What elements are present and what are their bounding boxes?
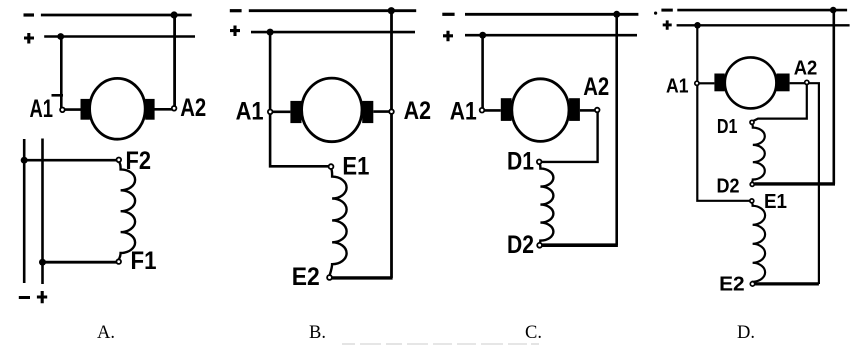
wire minus to A2 bbox=[173, 15, 176, 107]
svg-text:C.: C. bbox=[525, 323, 542, 343]
brush left (motor B) bbox=[290, 101, 301, 123]
wire A1 to brush (D) bbox=[699, 82, 714, 84]
wire to F1 bbox=[43, 261, 117, 264]
terminal E2 bbox=[327, 275, 332, 280]
terminal A1 bbox=[60, 108, 65, 113]
brush right (motor A) bbox=[145, 99, 154, 120]
svg-text:E2: E2 bbox=[719, 273, 745, 296]
shunt field coil E1-E2 bbox=[330, 169, 347, 275]
svg-text:A2: A2 bbox=[404, 97, 431, 125]
svg-text:D1: D1 bbox=[507, 148, 534, 176]
wire plus to A1 bbox=[60, 37, 63, 108]
junction negative bus / D2 drop D bbox=[830, 7, 837, 14]
wire negative bus B bbox=[249, 9, 416, 12]
supply plus symbol D bbox=[663, 20, 672, 29]
terminal D1 (C) bbox=[537, 160, 542, 165]
wire tick near A1 bbox=[52, 94, 64, 97]
brush right (motor C) bbox=[569, 98, 580, 121]
terminal D1 (D) bbox=[750, 120, 754, 124]
wire brush to A2 bbox=[154, 108, 172, 111]
wire D2 to minus vertical (thick) bbox=[754, 182, 835, 185]
wire negative bus D bbox=[677, 9, 847, 12]
supply minus symbol D bbox=[661, 9, 672, 12]
wire field supply right vertical bbox=[41, 139, 44, 285]
wire minus down to D2 (D) bbox=[832, 10, 835, 184]
wire A1 to brush bbox=[63, 108, 81, 111]
field supply plus symbol bbox=[37, 291, 47, 303]
svg-text:A1: A1 bbox=[666, 75, 689, 98]
armature M (motor A) bbox=[90, 78, 146, 139]
wire D2 to minus vertical (thick) bbox=[542, 243, 618, 247]
wire positive bus B bbox=[251, 31, 415, 34]
wire A1 to brush (C) bbox=[484, 109, 501, 112]
field supply minus symbol bbox=[19, 296, 30, 299]
wire brush to A2 (B) bbox=[373, 110, 389, 113]
terminal A2 (B) bbox=[389, 109, 394, 114]
svg-text:E1: E1 bbox=[342, 153, 369, 181]
junction negative bus / A2 drop B bbox=[388, 7, 395, 14]
svg-text:A1: A1 bbox=[236, 98, 264, 126]
wire positive bus C bbox=[465, 34, 637, 37]
terminal A2 bbox=[172, 106, 177, 111]
terminal A1 (D) bbox=[695, 81, 699, 85]
supply plus symbol A bbox=[24, 33, 34, 44]
supply plus symbol C bbox=[443, 31, 453, 42]
stray dot before minus (D) bbox=[654, 12, 657, 15]
armature M (motor C) bbox=[512, 79, 569, 142]
terminal E2 (D) bbox=[750, 282, 754, 286]
supply minus symbol B bbox=[230, 9, 242, 12]
terminal F1 bbox=[116, 259, 121, 264]
brush right (motor D) bbox=[776, 74, 789, 92]
wire negative bus C bbox=[465, 13, 638, 16]
junction positive bus / A1 drop bbox=[57, 33, 64, 40]
svg-text:D2: D2 bbox=[507, 231, 534, 259]
armature M (motor D) bbox=[725, 57, 777, 108]
wire E2 to minus vertical bbox=[332, 276, 393, 279]
field coil F2-F1 bbox=[119, 162, 135, 259]
supply plus symbol B bbox=[230, 26, 240, 37]
svg-text:A.: A. bbox=[97, 323, 115, 343]
junction positive bus / A1 drop C bbox=[479, 32, 486, 39]
junction field plus / F1 wire bbox=[39, 259, 46, 266]
svg-text:F1: F1 bbox=[131, 247, 157, 275]
wire brush to A2 (C) bbox=[580, 109, 595, 112]
brush right (motor B) bbox=[362, 101, 373, 123]
cropped caption remnant at bottom bbox=[342, 343, 539, 345]
series field coil D1-D2 bbox=[540, 164, 554, 243]
terminal F2 bbox=[117, 158, 122, 163]
svg-text:A1: A1 bbox=[450, 98, 477, 126]
brush left (motor C) bbox=[501, 98, 512, 121]
wire plus to A1 (C) bbox=[481, 35, 484, 108]
svg-text:D.: D. bbox=[737, 323, 755, 343]
shunt field coil E1-E2 bbox=[752, 203, 765, 282]
wire positive bus A bbox=[44, 35, 195, 38]
series field coil D1-D2 bbox=[752, 125, 765, 183]
wire minus down to D2 (C) bbox=[615, 14, 618, 245]
junction positive bus / A1 drop D bbox=[694, 22, 701, 29]
wire plus down through A1 to E1 bbox=[697, 25, 749, 201]
terminal A2 (C) bbox=[595, 108, 600, 113]
svg-text:D2: D2 bbox=[717, 175, 740, 198]
junction negative bus / A2 drop bbox=[171, 11, 178, 18]
svg-text:B.: B. bbox=[309, 323, 326, 343]
wire positive bus D bbox=[677, 24, 850, 26]
svg-text:D1: D1 bbox=[717, 115, 738, 138]
wire field supply left vertical bbox=[23, 139, 26, 283]
wire A1 to brush (B) bbox=[273, 111, 291, 114]
terminal D2 (D) bbox=[750, 182, 754, 186]
terminal A1 (B) bbox=[268, 110, 273, 115]
brush left (motor A) bbox=[81, 99, 90, 120]
supply minus symbol A bbox=[24, 13, 35, 16]
wire A2 down to D1 bbox=[542, 112, 598, 162]
svg-text:E2: E2 bbox=[292, 263, 320, 291]
wire negative bus A bbox=[41, 14, 192, 17]
armature M (motor B) bbox=[302, 78, 362, 142]
svg-text:A2: A2 bbox=[794, 56, 818, 79]
wire brush to A2 (D) bbox=[790, 82, 805, 84]
terminal A1 (C) bbox=[480, 108, 485, 113]
wire A2 down to D1 bbox=[753, 85, 806, 121]
svg-text:E1: E1 bbox=[764, 190, 787, 213]
svg-text:A1: A1 bbox=[30, 95, 54, 123]
junction field minus / F2 wire bbox=[21, 157, 28, 164]
svg-text:A2: A2 bbox=[583, 73, 609, 101]
brush left (motor D) bbox=[714, 74, 724, 92]
wire plus down through A1 to E1 bbox=[270, 32, 329, 166]
svg-text:A2: A2 bbox=[180, 94, 206, 122]
terminal D2 (C) bbox=[537, 243, 542, 248]
junction positive bus / A1 drop B bbox=[267, 29, 274, 36]
terminal E1 bbox=[329, 164, 334, 169]
junction negative bus / D2 drop C bbox=[613, 11, 620, 18]
terminal A2 (D) bbox=[805, 80, 809, 84]
terminal E1 (D) bbox=[750, 199, 754, 203]
wire A2 right then down to E2 bbox=[809, 83, 819, 284]
wire to F2 bbox=[24, 159, 116, 162]
supply minus symbol C bbox=[442, 13, 454, 16]
wire minus down through A2 to E2 bbox=[390, 11, 393, 278]
wire E2 to A2 vertical (thick) bbox=[755, 282, 819, 285]
